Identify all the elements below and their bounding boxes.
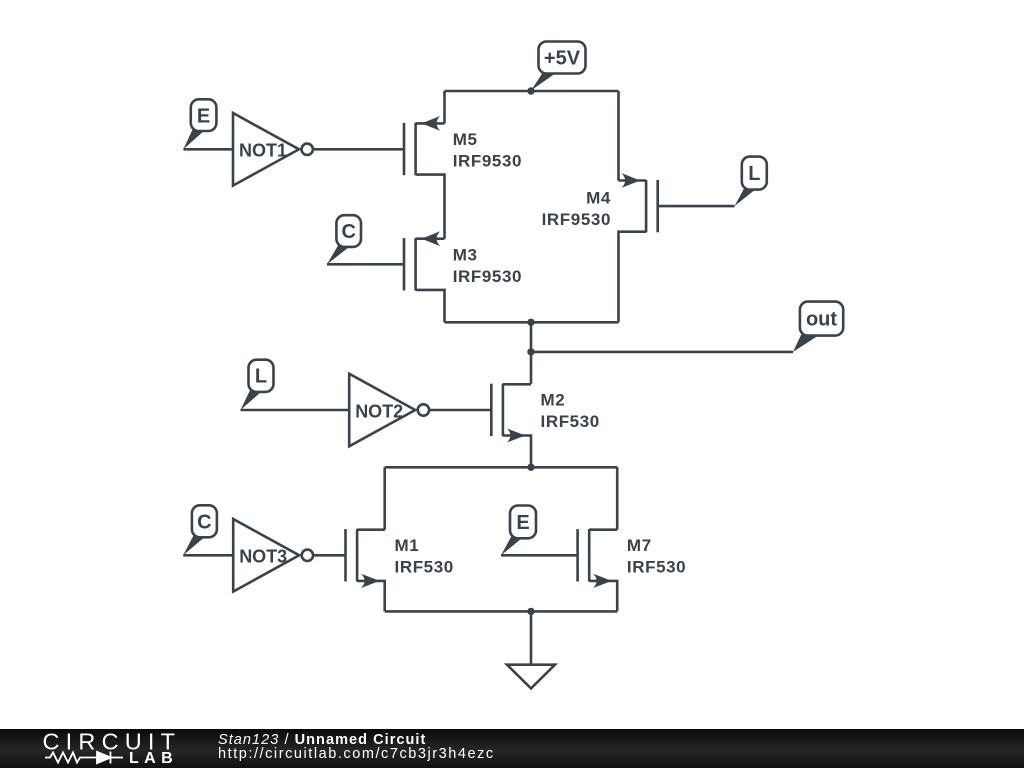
- wire NOT2 to M2 gate: [430, 409, 491, 412]
- wire top box bottom rail: [445, 321, 619, 324]
- wire to ground: [530, 611, 533, 664]
- label E (NOT1 input): [183, 99, 216, 149]
- node out junction: [527, 348, 534, 355]
- label C (NOT3 input): [183, 505, 217, 555]
- svg-text:NOT1: NOT1: [239, 141, 287, 161]
- transistor M2: [491, 384, 600, 468]
- svg-text:E: E: [516, 512, 529, 534]
- svg-text:IRF9530: IRF9530: [542, 210, 611, 229]
- label C (M3 gate): [327, 215, 361, 264]
- svg-text:M5: M5: [453, 130, 478, 149]
- inverter NOT1: [233, 113, 313, 186]
- svg-text:L: L: [748, 163, 760, 185]
- svg-text:L: L: [255, 366, 267, 388]
- label L (NOT2 input): [241, 360, 274, 410]
- logo resistor-diode: [45, 752, 123, 764]
- svg-text:LAB: LAB: [129, 750, 178, 767]
- wire L to NOT2: [241, 409, 350, 412]
- wire NOT3 to M1 gate: [314, 554, 346, 557]
- wire lower box right upper: [616, 467, 619, 529]
- transistor M3: [404, 231, 522, 322]
- svg-text:M1: M1: [395, 536, 420, 555]
- wire E to M7 gate: [501, 554, 577, 557]
- inverter NOT2: [349, 374, 429, 447]
- svg-text:NOT2: NOT2: [355, 401, 403, 421]
- svg-text:out: out: [806, 309, 837, 331]
- transistor M5: [404, 116, 522, 239]
- node M2 source junction: [527, 464, 534, 471]
- transistor M7: [578, 529, 687, 611]
- wire C to NOT3: [183, 554, 233, 557]
- wire out: [531, 351, 793, 354]
- wire lower box left upper: [383, 467, 386, 529]
- svg-text:IRF530: IRF530: [627, 558, 686, 577]
- label L (M4 gate): [735, 157, 767, 207]
- svg-text:C: C: [197, 511, 211, 533]
- svg-text:C: C: [341, 221, 355, 243]
- svg-text:M4: M4: [586, 188, 611, 207]
- node ground junction: [527, 608, 534, 615]
- wire lower box bottom rail: [385, 610, 618, 613]
- wire E to NOT1: [183, 148, 233, 151]
- node drain junction: [527, 319, 534, 326]
- wire C to M3 gate: [327, 263, 404, 266]
- svg-text:M7: M7: [627, 536, 652, 555]
- svg-text:IRF530: IRF530: [541, 412, 600, 431]
- wire lower box top rail: [385, 466, 618, 469]
- svg-text:http://circuitlab.com/c7cb3jr3: http://circuitlab.com/c7cb3jr3h4ezc: [218, 746, 495, 762]
- transistor M4: [542, 173, 658, 322]
- svg-text:IRF9530: IRF9530: [453, 152, 522, 171]
- svg-text:M3: M3: [453, 245, 478, 264]
- wire top box left upper: [443, 91, 446, 123]
- svg-text:E: E: [197, 105, 210, 127]
- svg-text:M2: M2: [541, 391, 566, 410]
- wire NOT1 to M5 gate: [314, 148, 404, 151]
- svg-text:NOT3: NOT3: [239, 547, 287, 567]
- svg-text:IRF530: IRF530: [395, 558, 454, 577]
- transistor M1: [346, 529, 454, 611]
- svg-text:+5V: +5V: [544, 48, 581, 70]
- wire M4 gate to L: [658, 205, 735, 208]
- wire top box right upper: [617, 91, 620, 181]
- footer bar: [0, 729, 1024, 768]
- ground: [507, 665, 555, 689]
- node +5V: [527, 42, 585, 95]
- wire center vertical: [530, 322, 533, 384]
- svg-text:IRF9530: IRF9530: [453, 267, 522, 286]
- wire top rail: [445, 90, 619, 93]
- label out: [793, 302, 843, 352]
- inverter NOT3: [233, 519, 313, 592]
- label E (M7 gate): [501, 506, 536, 556]
